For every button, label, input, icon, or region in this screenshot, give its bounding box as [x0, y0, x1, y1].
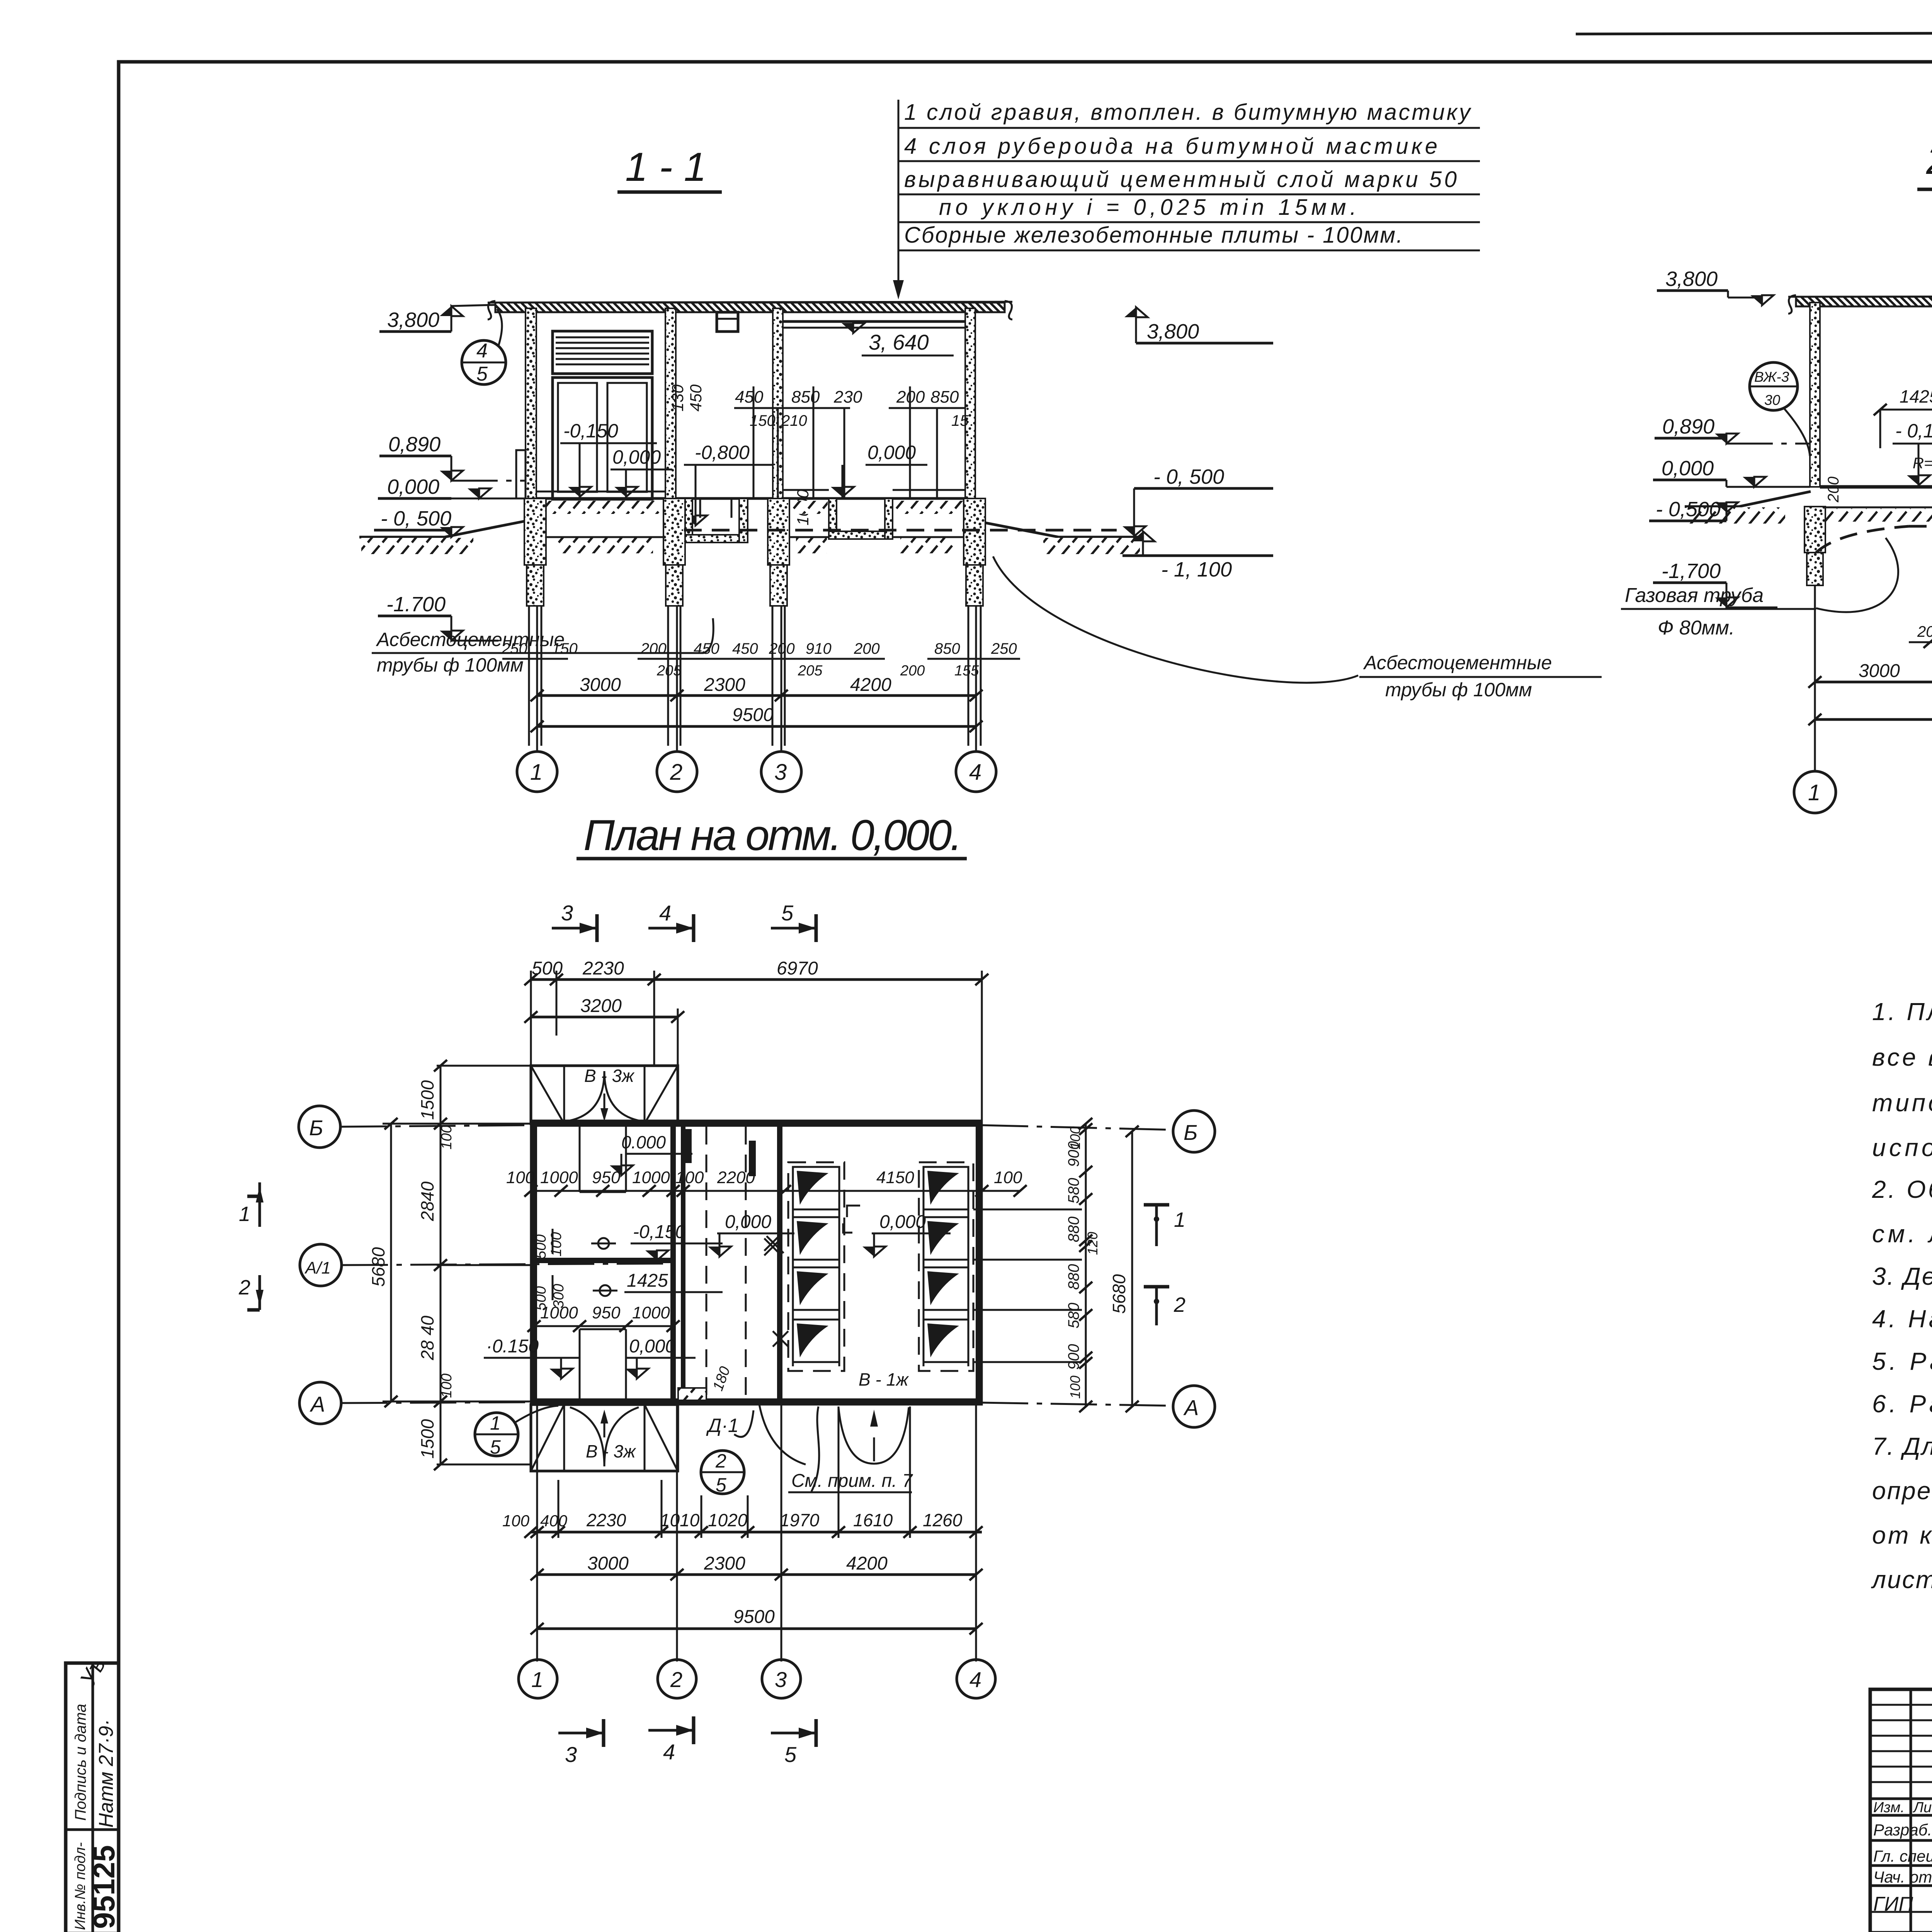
axis extension lines [537, 606, 976, 752]
svg-text:1: 1 [530, 760, 543, 785]
svg-text:1000: 1000 [540, 1168, 578, 1187]
svg-text:3, 640: 3, 640 [869, 330, 929, 354]
svg-text:910: 910 [806, 640, 832, 657]
hatched threshold [678, 1388, 706, 1400]
window in room 1-2 [553, 378, 652, 499]
svg-text:950: 950 [592, 1168, 621, 1187]
svg-text:А: А [310, 1392, 325, 1416]
wall on axis 2 [665, 308, 676, 498]
svg-text:Чач. отд.: Чач. отд. [1873, 1868, 1932, 1886]
svg-text:1000: 1000 [632, 1303, 670, 1322]
callout circle 4/5 [462, 340, 506, 384]
svg-text:определяется при привязк: определяется при привязке проекта, в зав… [1872, 1477, 1932, 1505]
svg-text:- 1, 100: - 1, 100 [1161, 558, 1232, 581]
svg-text:1: 1 [1808, 780, 1820, 805]
svg-text:3,800: 3,800 [1147, 320, 1199, 343]
svg-text:3000: 3000 [1859, 661, 1900, 681]
svg-text:500: 500 [533, 1235, 549, 1259]
svg-text:ГИП: ГИП [1873, 1893, 1913, 1915]
svg-text:- 0, 500: - 0, 500 [381, 507, 451, 530]
svg-text:Инв.№ подл-: Инв.№ подл- [72, 1842, 88, 1930]
svg-text:1010: 1010 [660, 1510, 700, 1530]
callout circle VZh-3/30 [1750, 362, 1798, 410]
svg-text:95125: 95125 [87, 1845, 121, 1929]
svg-text:Лист: Лист [1912, 1799, 1932, 1816]
svg-text:1020: 1020 [708, 1510, 748, 1530]
axis circle 4 bottom [957, 1660, 995, 1698]
svg-text:3200: 3200 [580, 996, 622, 1016]
wall on axis 1 [1810, 303, 1820, 487]
svg-text:1500: 1500 [417, 1419, 437, 1459]
axis circle 1 bottom [519, 1660, 557, 1698]
right dim chain column [1085, 1124, 1087, 1406]
cell tie lines to right chain [973, 1209, 1082, 1362]
axis circle 3 bottom [762, 1660, 801, 1698]
vent box on roof of room 2-3 [717, 312, 738, 332]
svg-text:-1,700: -1,700 [1662, 560, 1721, 583]
inventory strip table [66, 1663, 119, 1932]
svg-text:·0.150: ·0.150 [486, 1336, 539, 1357]
svg-text:А/1: А/1 [304, 1259, 331, 1277]
svg-text:4: 4 [476, 340, 488, 362]
svg-text:250: 250 [501, 640, 527, 657]
foundation piers [524, 498, 546, 565]
svg-text:450: 450 [732, 640, 758, 657]
callout circle 1/5 [475, 1413, 518, 1456]
under-floor duct room 3-4 [829, 498, 837, 539]
ground line left [359, 536, 444, 539]
svg-text:30: 30 [1764, 392, 1781, 408]
svg-text:200: 200 [640, 640, 667, 657]
svg-text:100: 100 [675, 1168, 704, 1187]
svg-text:2: 2 [670, 760, 682, 785]
svg-text:15: 15 [951, 412, 969, 429]
svg-text:2: 2 [715, 1450, 726, 1472]
svg-text:ВЖ-3: ВЖ-3 [1754, 369, 1789, 385]
left section mark 1 [247, 1195, 260, 1198]
svg-text:130: 130 [668, 384, 687, 412]
svg-text:950: 950 [592, 1303, 621, 1322]
bottom dim row 9500 [537, 1628, 976, 1630]
svg-text:от количества панелей,: от количества панелей, в соответствии с [1872, 1521, 1932, 1549]
svg-text:2300: 2300 [704, 675, 745, 695]
axis circle A/1 left [300, 1244, 342, 1286]
bay A cells and switch marks [793, 1167, 839, 1362]
svg-text:2300: 2300 [704, 1553, 745, 1574]
ground line right [975, 521, 1059, 537]
svg-text:В - 1ж: В - 1ж [859, 1369, 909, 1389]
svg-text:850: 850 [791, 388, 820, 406]
corridor partition [681, 1127, 685, 1387]
svg-text:1970: 1970 [780, 1510, 820, 1530]
wall on axis 4 [965, 308, 975, 498]
soil hatch under floor [546, 501, 660, 514]
dirt cross marks [764, 1234, 784, 1255]
svg-text:- 0, 500: - 0, 500 [1153, 465, 1224, 488]
svg-text:3000: 3000 [587, 1553, 629, 1574]
svg-text:0,000: 0,000 [629, 1336, 675, 1357]
floor lines [1820, 485, 1932, 489]
svg-text:900: 900 [1065, 1141, 1082, 1167]
svg-text:Гл. спец.: Гл. спец. [1873, 1847, 1932, 1865]
pilaster on wall 1 [516, 450, 526, 498]
svg-text:3: 3 [774, 760, 787, 785]
svg-text:1425: 1425 [1900, 386, 1932, 406]
bottom dim row 3000/2300/4200 [537, 1573, 976, 1576]
svg-text:-0,800: -0,800 [695, 442, 750, 463]
top outer trim line [1576, 32, 1932, 34]
svg-text:210: 210 [781, 412, 807, 429]
svg-text:2230: 2230 [586, 1510, 626, 1530]
svg-text:4. На плане 0.000 трубы: 4. На плане 0.000 трубы условно не показ… [1872, 1305, 1932, 1333]
main dim line 3000/2300/4200 [537, 694, 976, 697]
transformer bay A dashed enclosure [788, 1162, 844, 1371]
svg-text:5: 5 [490, 1436, 501, 1458]
svg-text:3: 3 [775, 1667, 787, 1692]
svg-text:выравнивающий цементный с: выравнивающий цементный слой марки 50 [904, 167, 1457, 192]
svg-text:100: 100 [1067, 1376, 1083, 1399]
svg-text:4: 4 [969, 760, 981, 785]
svg-text:1500: 1500 [417, 1080, 437, 1120]
axis circle B right [1173, 1111, 1215, 1152]
svg-text:850: 850 [930, 388, 959, 406]
bay B cells and switch marks [923, 1167, 968, 1362]
svg-text:R=1000: R=1000 [1913, 455, 1932, 472]
svg-text:100: 100 [994, 1168, 1022, 1187]
svg-text:6. Разрезы 3-3, 4-4, 5-5: 6. Разрезы 3-3, 4-4, 5-5 даны на листе А… [1872, 1390, 1932, 1418]
svg-text:250: 250 [991, 640, 1017, 657]
svg-text:-0,150: -0,150 [633, 1222, 685, 1242]
top dim row 3200 [531, 1016, 678, 1019]
ground line left [1685, 505, 1739, 508]
revision table column lines [1910, 1689, 1912, 1932]
svg-text:см. лист АР-1.: см. лист АР-1. [1872, 1220, 1932, 1248]
bottom section marker 5 [771, 1732, 816, 1735]
svg-text:0,890: 0,890 [1662, 415, 1714, 438]
svg-text:Разраб.: Разраб. [1873, 1821, 1932, 1839]
small dims row [502, 658, 1020, 660]
svg-text:Изм.: Изм. [1873, 1799, 1905, 1816]
main dim line 3000/2300/4200 [1815, 681, 1932, 684]
svg-text:трубы ф 100мм: трубы ф 100мм [377, 654, 524, 676]
svg-text:5680: 5680 [1109, 1274, 1129, 1314]
elevation -1,100 right [1131, 531, 1155, 541]
bottom porch louver B-3zh [531, 1405, 678, 1471]
outer walls [534, 1124, 979, 1401]
axis circle B left [299, 1106, 340, 1148]
svg-text:1: 1 [531, 1667, 543, 1692]
axis circle A right [1173, 1386, 1215, 1427]
svg-text:А: А [1183, 1395, 1199, 1420]
buried pipe dashed line [684, 529, 1117, 532]
svg-text:5: 5 [784, 1742, 797, 1767]
svg-text:1: 1 [1174, 1208, 1185, 1231]
ceiling beam room 3-4 [783, 320, 965, 323]
svg-text:Сборные железобетонные пл: Сборные железобетонные плиты - 100мм. [904, 223, 1403, 248]
top dim row 500/2230/6970 [531, 978, 982, 981]
svg-text:880: 880 [1065, 1216, 1082, 1242]
axis extension lines [1815, 585, 1932, 771]
svg-text:880: 880 [1065, 1264, 1082, 1290]
wall on axis 3 [773, 308, 783, 498]
svg-text:2 - 2: 2 - 2 [1926, 138, 1932, 183]
overall dim 9500 [537, 725, 976, 728]
axis circle 2 bottom [658, 1660, 696, 1698]
svg-text:0,000: 0,000 [1662, 457, 1714, 480]
svg-text:120: 120 [1085, 1232, 1100, 1255]
svg-text:0,000: 0,000 [387, 475, 439, 498]
svg-text:150: 150 [552, 640, 578, 657]
svg-text:См. прим. п. 7: См. прим. п. 7 [791, 1471, 913, 1491]
svg-text:3: 3 [561, 901, 573, 925]
foundation piers [1804, 507, 1825, 553]
svg-text:3,800: 3,800 [387, 308, 439, 332]
svg-text:200: 200 [900, 663, 925, 679]
svg-text:1. Планировка трансформатор: 1. Планировка трансформаторной подстанци… [1872, 998, 1932, 1026]
soil hatch under floor [1822, 509, 1932, 522]
svg-text:-0,150: -0,150 [563, 420, 618, 442]
svg-text:- 0,500: - 0,500 [1656, 498, 1721, 521]
svg-text:1610: 1610 [853, 1510, 893, 1530]
svg-text:4200: 4200 [850, 675, 891, 695]
svg-text:1260: 1260 [923, 1510, 963, 1530]
transformer bay B dashed enclosure [919, 1162, 973, 1371]
svg-text:100: 100 [548, 1232, 565, 1257]
svg-text:4: 4 [969, 1667, 981, 1692]
left section mark 2 [247, 1308, 260, 1312]
svg-text:все внутренние размеры поме: все внутренние размеры помещений взяты и… [1872, 1043, 1932, 1071]
buried gas pipe dashed [1909, 525, 1932, 528]
svg-text:850: 850 [934, 640, 960, 657]
right section mark 1 [1144, 1203, 1169, 1207]
svg-text:1425: 1425 [627, 1270, 668, 1291]
svg-text:План на отм. 0,000.: План на отм. 0,000. [583, 811, 962, 859]
svg-text:Б: Б [1184, 1120, 1197, 1145]
bottom section marker 3 [558, 1732, 604, 1735]
left outer 5680 [390, 1124, 392, 1401]
trench between axes 2-3 [684, 498, 692, 543]
axis circle 2 [657, 752, 697, 792]
svg-text:9500: 9500 [733, 1607, 775, 1627]
svg-text:4200: 4200 [846, 1553, 888, 1574]
svg-text:900: 900 [1065, 1344, 1082, 1370]
interior wall axis 3 [777, 1124, 782, 1401]
svg-text:трубы ф 100мм: трубы ф 100мм [1385, 679, 1532, 701]
svg-text:0,890: 0,890 [388, 433, 440, 456]
wall on axis 1 [526, 308, 536, 498]
3,640 ceiling level mark [842, 323, 865, 333]
revision table row lines [1870, 1704, 1932, 1706]
axis circle 1 [1794, 771, 1836, 813]
right section mark 2 [1144, 1285, 1169, 1289]
svg-text:1000: 1000 [632, 1168, 670, 1187]
svg-text:28 40: 28 40 [417, 1315, 437, 1361]
top porch louver B-3zh [531, 1066, 678, 1124]
floor slab lines [536, 497, 665, 500]
axis circle 1 [517, 752, 557, 792]
door D-1 opening [759, 1405, 806, 1464]
pedestal marks [598, 1238, 609, 1249]
svg-text:Газовая труба: Газовая труба [1625, 584, 1764, 607]
svg-text:В - 3ж: В - 3ж [586, 1441, 636, 1461]
svg-text:6970: 6970 [777, 958, 818, 979]
svg-text:0.000: 0.000 [621, 1132, 666, 1152]
svg-text:Ф 80мм.: Ф 80мм. [1658, 617, 1735, 639]
small partitions upper-left room [579, 1127, 581, 1192]
svg-text:2: 2 [670, 1667, 682, 1692]
svg-text:Асбестоцементные: Асбестоцементные [1363, 652, 1552, 673]
svg-text:3: 3 [565, 1742, 577, 1767]
svg-text:1000: 1000 [540, 1303, 578, 1322]
svg-text:3,800: 3,800 [1665, 267, 1718, 291]
door leaf marks in corridor [685, 1129, 692, 1163]
svg-text:205: 205 [798, 663, 823, 679]
svg-text:2840: 2840 [417, 1181, 437, 1221]
svg-text:400: 400 [540, 1512, 568, 1530]
svg-text:0,000: 0,000 [612, 446, 661, 468]
roof slab [1796, 297, 1932, 306]
small partitions lower-left room [579, 1329, 581, 1399]
svg-text:5: 5 [476, 363, 488, 385]
svg-text:4: 4 [659, 901, 671, 925]
svg-text:230: 230 [833, 388, 862, 406]
svg-text:5: 5 [716, 1474, 726, 1496]
svg-text:2: 2 [238, 1276, 250, 1299]
svg-text:Б: Б [309, 1116, 323, 1140]
svg-text:1 - 1: 1 - 1 [625, 145, 706, 190]
svg-text:1: 1 [239, 1202, 250, 1226]
svg-text:0,000: 0,000 [725, 1212, 771, 1232]
callout circle 2/5 [701, 1451, 744, 1494]
svg-text:580: 580 [1065, 1303, 1082, 1328]
svg-text:- 0,150: - 0,150 [1895, 420, 1932, 442]
axis circle 4 [956, 752, 996, 792]
elevation 3,800 right [1124, 307, 1148, 317]
svg-text:2200: 2200 [717, 1168, 755, 1187]
overall dim 9500 [1815, 718, 1932, 721]
svg-text:200: 200 [854, 640, 880, 657]
bottom dim chain row [537, 1405, 976, 1662]
svg-text:-1.700: -1.700 [386, 593, 446, 616]
svg-text:Натм 27·9·: Натм 27·9· [95, 1719, 117, 1828]
axis circle 3 [761, 752, 801, 792]
svg-text:100: 100 [439, 1125, 455, 1150]
interior wall on axis A/1 [534, 1258, 673, 1263]
right outer 5680 [1131, 1131, 1133, 1406]
svg-text:100: 100 [439, 1374, 455, 1398]
svg-text:2. Общие примечания и пе: 2. Общие примечания и перечень листов пр… [1872, 1175, 1932, 1203]
svg-text:2230: 2230 [582, 958, 624, 979]
svg-text:500: 500 [532, 958, 563, 979]
svg-text:100: 100 [506, 1168, 535, 1187]
svg-text:1: 1 [490, 1412, 501, 1434]
svg-text:5. Расположение труб в пл: 5. Расположение труб в плане см. лист АР… [1872, 1347, 1932, 1375]
svg-text:2: 2 [1173, 1293, 1185, 1316]
svg-text:4150: 4150 [876, 1168, 914, 1187]
svg-text:4: 4 [663, 1740, 675, 1764]
svg-text:100: 100 [502, 1512, 530, 1530]
title block outer box [1870, 1689, 1932, 1932]
svg-text:200: 200 [1917, 623, 1932, 640]
svg-text:580: 580 [1065, 1178, 1082, 1204]
svg-text:В - 3ж: В - 3ж [584, 1066, 635, 1086]
left dim chain column [440, 1066, 442, 1464]
asbestos pipes below piers [529, 606, 981, 746]
leader from note to roof [898, 100, 900, 296]
svg-text:5: 5 [781, 901, 794, 925]
svg-text:5680: 5680 [368, 1247, 388, 1287]
svg-text:0,000: 0,000 [867, 442, 916, 463]
svg-text:200: 200 [1825, 476, 1842, 503]
svg-text:450: 450 [694, 640, 719, 657]
left extension stubs [383, 1066, 534, 1464]
svg-text:450: 450 [687, 384, 705, 412]
ground hatch mid spans [556, 538, 653, 553]
svg-text:450: 450 [735, 388, 764, 406]
louver grille in room 1-2 [553, 331, 652, 374]
axis circle A left [299, 1382, 341, 1424]
svg-text:типового проекта 407-3-: типового проекта 407-3-167/75 в кирпично… [1872, 1089, 1932, 1117]
bottom section marker 4 [648, 1729, 694, 1732]
svg-text:3000: 3000 [580, 675, 621, 695]
svg-text:Подпись и дата: Подпись и дата [72, 1704, 89, 1821]
svg-text:Д·1: Д·1 [706, 1415, 739, 1436]
interior wall axis 2 [670, 1124, 676, 1401]
roof slab [495, 303, 1005, 312]
svg-text:9500: 9500 [732, 705, 774, 725]
